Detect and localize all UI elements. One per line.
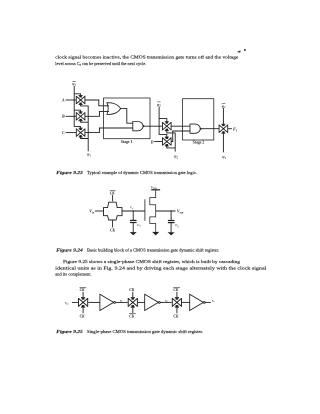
capacitor Cx (130, 211, 137, 232)
wire: input D (154, 141, 162, 143)
clock label CK (bottom, stage 3) (173, 315, 178, 319)
capacitor label Cx (137, 223, 141, 228)
output label Vout (177, 209, 184, 215)
Stage 1 box (104, 98, 151, 139)
inverter X2 (145, 294, 161, 310)
inverter X1 (100, 294, 116, 310)
clock label CK-bar (top, stage 1) (80, 287, 87, 292)
svg-text:Single-phase CMOS transmission: Single-phase CMOS transmission gate dyna… (87, 329, 203, 334)
svg-text:CK: CK (80, 315, 85, 319)
wire: TG-out bottom to phi1 (222, 133, 224, 152)
wire: X1 output (115, 301, 127, 303)
transmission gate TG-D2 (162, 137, 171, 146)
input label Vin (89, 209, 94, 215)
wire: TG3 to inverter X3 (182, 301, 190, 303)
VDD label (151, 185, 157, 190)
wire: TG-D1 bottom gate to phi2 rail (167, 131, 175, 152)
node junction dot (output) (170, 210, 171, 211)
caption figure 9.24 (56, 248, 219, 253)
wire: top clock lead (stage 2) (132, 292, 134, 297)
wire: bottom clock lead (stage 1) (82, 308, 84, 314)
svg-text:CK: CK (110, 229, 115, 233)
clock label phi1 (right bottom) (222, 154, 226, 160)
svg-text:Basic building block of a CMOS: Basic building block of a CMOS transmiss… (87, 248, 219, 253)
wire: AND U3 output to TG-out (202, 128, 219, 130)
svg-text:D: D (150, 140, 154, 145)
transmission gate TG1 (fig 9.25) (79, 298, 88, 307)
svg-text:CK: CK (173, 315, 178, 319)
wire: vin to TG1 (72, 301, 78, 303)
Stage 1 label (121, 140, 133, 144)
input label A (61, 97, 65, 102)
svg-text:B: B (61, 114, 65, 119)
svg-text:Stage 1: Stage 1 (121, 140, 133, 144)
node label v2 (165, 298, 168, 303)
input label C (62, 130, 65, 135)
VDD supply bar (151, 189, 160, 191)
clock label CK-bar (top, stage 3) (173, 287, 180, 292)
svg-text:Stage 2: Stage 2 (193, 141, 205, 145)
svg-text:level across Cₓ can be preserv: level across Cₓ can be preserved until t… (55, 61, 146, 66)
wire: inverter output (156, 210, 176, 212)
caption figure 9.25 (56, 329, 203, 334)
wire: OR output to AND U2 input 1 (120, 109, 132, 124)
wire: TG-D2 output to AND U3 input 2 (171, 131, 190, 142)
paragraph line 1 (55, 55, 238, 61)
transmission gate TG (cross outline) (104, 202, 123, 220)
paragraph2 line 2 (55, 265, 267, 270)
wire: X3 output (205, 301, 211, 303)
PMOS M1 and NMOS M2 body (150, 190, 156, 232)
svg-text:F1: F1 (233, 127, 238, 133)
input label vin (fig 9.25) (65, 301, 69, 306)
svg-text:identical units as in Fig. 9.2: identical units as in Fig. 9.24 and by d… (55, 265, 267, 270)
svg-text:Figure 9.25: Figure 9.25 (56, 329, 83, 334)
transmission gate TG-out (219, 124, 228, 133)
wire: TG-A output to OR input 1 (85, 100, 109, 106)
clock label CK (bottom, stage 1) (80, 315, 85, 319)
node junction dot (133, 210, 134, 211)
AND gate U3 (190, 124, 200, 133)
input label D (150, 140, 154, 145)
clock label phi1-bar (right top) (222, 103, 226, 109)
capacitor Cy (168, 211, 175, 232)
wire: TG B bottom gate to phi1 rail (81, 121, 89, 122)
wire: CK-bar lead (112, 195, 114, 201)
wire: TG1 to inverter X1 (88, 301, 100, 303)
svg-text:Figure 9.23: Figure 9.23 (56, 170, 83, 175)
paragraph2 line 1 (63, 259, 241, 265)
transmission gate TG3 (fig 9.25) (172, 298, 181, 307)
wire: phi1-bar rail (73, 86, 75, 127)
OR gate U1 (107, 103, 121, 115)
wire: phi2-bar rail to TG-D2 top gate (159, 119, 167, 137)
Stage 2 box (183, 99, 214, 140)
wire: TG C bottom gate to phi1 rail (81, 137, 89, 138)
svg-text:A: A (61, 97, 65, 102)
wire: rail stub to TG C top gate (74, 127, 80, 128)
inverter gate line (144, 199, 146, 221)
AND U3 output nib (200, 128, 202, 130)
clock label CK-bar (top) (110, 190, 116, 195)
clock label phi1 (bottom) (87, 152, 91, 158)
AND gate U2 (133, 122, 143, 131)
wire: top clock lead (stage 3) (176, 292, 178, 297)
wire: bottom clock lead (stage 2) (132, 308, 134, 314)
svg-text:C: C (62, 130, 65, 135)
transmission gate TG2 (fig 9.25) (128, 298, 137, 307)
wire: Vin to TG (95, 210, 104, 212)
clock label CK (bottom) (110, 229, 115, 233)
node label v1 (120, 298, 122, 303)
wire: CK lead (112, 220, 114, 228)
svg-text:and its complement.: and its complement. (55, 272, 91, 277)
ground (below Cy) (168, 232, 175, 235)
capacitor label Cy (175, 223, 179, 228)
wire: input C (66, 132, 77, 134)
wire: TG-B output to OR input 2 (85, 111, 109, 116)
Stage 2 label (193, 141, 205, 145)
wire: phi1-bar lead to TG-out (222, 108, 224, 124)
wire: rail stub to TG A top gate (74, 94, 80, 96)
transmission gate TG-C (76, 128, 85, 137)
wire: TG-D1 output to AND U3 input 1 (171, 125, 190, 127)
wire: TG-D2 bottom gate to phi2 rail (167, 146, 175, 148)
ink smudge mark (237, 49, 246, 53)
wire: top clock lead (stage 1) (82, 292, 84, 297)
paragraph2 line 3 (55, 272, 91, 277)
svg-text:CK: CK (80, 288, 85, 292)
clock label phi2 (middle bottom) (174, 154, 178, 160)
node label vx (130, 205, 134, 210)
wire: phi2-bar rail (159, 107, 167, 122)
ground (below Cx) (130, 232, 137, 235)
wire: X2 output (160, 301, 171, 303)
svg-text:CK: CK (129, 315, 134, 319)
svg-text:CK: CK (110, 192, 115, 196)
clock label phi1-bar (top left) (72, 81, 76, 87)
wire: phi1 rail (81, 105, 89, 152)
transmission gate TG-D1 (162, 122, 171, 131)
inverter X3 (190, 294, 206, 310)
wire: AND U2 output to TG-D1 (145, 125, 162, 127)
input label B (61, 114, 65, 119)
wire: rail stub to TG B top gate (74, 110, 80, 111)
wire: output to F1 (228, 128, 232, 130)
transmission gate TG-A (76, 96, 85, 105)
output node label vo (212, 298, 215, 303)
wire: bottom clock lead (stage 3) (176, 308, 178, 314)
wire: TG-C output to AND U2 input 2 (85, 128, 133, 133)
wire: input B (66, 115, 77, 117)
clock label CK (top, stage 2) (129, 288, 134, 292)
clock label CK-bar (bottom, stage 2) (129, 313, 136, 318)
AND U2 output nib (143, 125, 145, 128)
wire: TG output to inverter gate (122, 210, 145, 212)
clock label phi2-bar (middle top) (157, 102, 161, 108)
transmission gate TG-B (76, 112, 85, 121)
svg-text:CK: CK (173, 288, 178, 292)
ground (inverter) (152, 232, 159, 236)
svg-text:Figure 9.24: Figure 9.24 (56, 248, 83, 253)
svg-text:CK: CK (129, 288, 134, 292)
caption figure 9.23 (56, 170, 197, 175)
svg-text:Typical example of dynamic CMO: Typical example of dynamic CMOS transmis… (87, 170, 197, 175)
output label F1 (233, 127, 238, 133)
paragraph line 2 (55, 61, 146, 66)
wire: TG2 to inverter X2 (138, 301, 145, 303)
wire: input A (66, 99, 77, 101)
